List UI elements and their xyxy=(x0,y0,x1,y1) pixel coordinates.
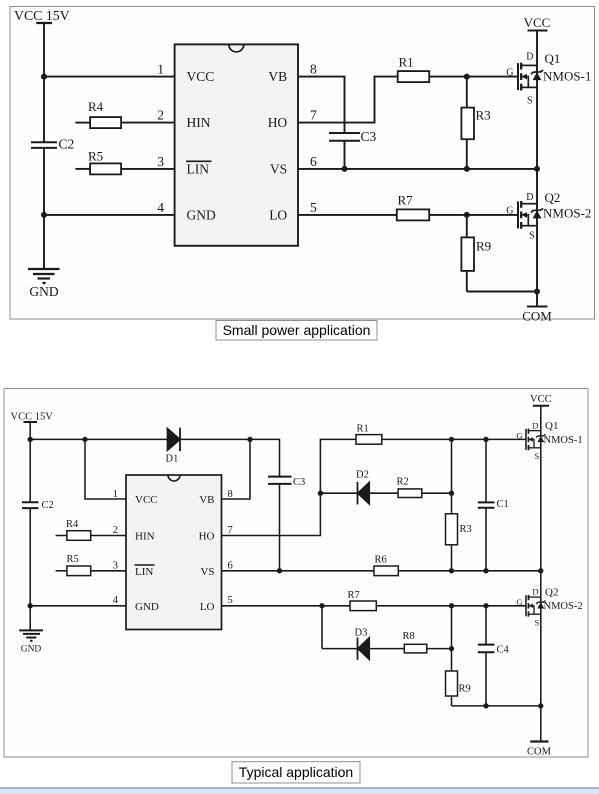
junction R1-R3 node xyxy=(464,74,470,80)
resistor R3 (sch2) xyxy=(446,439,458,570)
junction R9 return at source rail xyxy=(534,289,540,295)
node VCC top bar for Q1 drain xyxy=(528,30,548,32)
svg-text:VCC: VCC xyxy=(135,494,158,506)
svg-text:D2: D2 xyxy=(356,470,369,481)
caption box: Typical application xyxy=(232,762,360,783)
wire pin8 VB to C3 xyxy=(298,77,345,133)
wire left supply rail vertical xyxy=(43,23,45,142)
junction LO row / D3 branch (sch2) xyxy=(319,603,324,608)
wire R1 to Q1 gate (sch2) xyxy=(452,438,527,440)
resistor R1 (sch2) xyxy=(356,435,452,445)
svg-text:1: 1 xyxy=(113,489,118,500)
schematic 1 border frame xyxy=(10,7,595,320)
svg-text:GND: GND xyxy=(29,284,58,299)
svg-text:COM: COM xyxy=(527,747,552,758)
svg-text:G: G xyxy=(516,597,522,607)
svg-text:5: 5 xyxy=(228,595,233,606)
junction LO row / C4 column (sch2) xyxy=(483,603,488,608)
junction C4 bottom on return row (sch2) xyxy=(483,703,488,708)
wire pin7 HO up to R1 xyxy=(298,77,398,123)
resistor R9 (sch2) xyxy=(446,606,458,706)
svg-text:NMOS-2: NMOS-2 xyxy=(544,601,583,612)
node VCC 15V rail bar (sch2) xyxy=(24,421,38,423)
svg-text:LO: LO xyxy=(200,601,215,613)
resistor R7 (sch2) xyxy=(350,601,526,611)
svg-text:R3: R3 xyxy=(476,108,491,123)
diode D3 xyxy=(322,637,369,659)
capacitor C3 (sch2) xyxy=(268,477,292,484)
transistor Q1 xyxy=(518,63,543,91)
svg-text:Q1: Q1 xyxy=(545,420,558,432)
svg-text:NMOS-1: NMOS-1 xyxy=(543,69,591,84)
resistor R1 xyxy=(398,71,467,82)
wire pin7 HO up to R1 row (sch2) xyxy=(222,439,357,535)
svg-text:R7: R7 xyxy=(398,193,414,208)
svg-text:Small power application: Small power application xyxy=(223,322,371,338)
svg-text:S: S xyxy=(535,617,540,627)
svg-text:R6: R6 xyxy=(375,555,387,566)
junction R1 row / R3 column (sch2) xyxy=(449,437,454,442)
junction top line / pin1 branch (sch2) xyxy=(82,437,87,442)
svg-text:VCC 15V: VCC 15V xyxy=(11,412,54,423)
resistor R5 (sch2) xyxy=(56,566,126,576)
svg-text:2: 2 xyxy=(157,108,164,123)
svg-text:C2: C2 xyxy=(59,137,75,152)
svg-text:5: 5 xyxy=(310,200,317,215)
svg-text:7: 7 xyxy=(310,108,317,123)
capacitor C3 xyxy=(329,133,360,141)
svg-text:R9: R9 xyxy=(476,239,491,254)
junction VS net at source rail (sch2) xyxy=(538,568,543,573)
node COM bar xyxy=(527,306,548,308)
diode D2 xyxy=(320,482,369,504)
transistor Q1 (sch2) xyxy=(526,429,545,451)
junction C1 bottom on VS net (sch2) xyxy=(483,568,488,573)
IC U1 body xyxy=(175,44,298,245)
svg-text:R4: R4 xyxy=(88,99,104,114)
svg-text:Typical application: Typical application xyxy=(239,764,353,780)
svg-text:C3: C3 xyxy=(293,477,305,488)
capacitor C4 xyxy=(478,606,495,706)
svg-text:R2: R2 xyxy=(397,477,409,488)
junction at VCC rail / pin1 xyxy=(41,74,47,80)
svg-text:R1: R1 xyxy=(399,55,414,70)
wire pin5 LO row (sch2) xyxy=(222,605,351,607)
wire branch pin8 VB up to top line xyxy=(222,439,251,499)
svg-text:HIN: HIN xyxy=(187,115,211,130)
svg-text:R4: R4 xyxy=(66,519,79,530)
junction R7-R9 node xyxy=(464,212,470,218)
resistor R9 xyxy=(461,215,474,292)
wire pin4 GND xyxy=(44,214,175,216)
svg-text:VB: VB xyxy=(268,69,287,84)
svg-text:4: 4 xyxy=(113,595,119,606)
junction at VCC rail / pin4 xyxy=(41,212,47,218)
svg-text:GND: GND xyxy=(135,601,159,613)
svg-text:HIN: HIN xyxy=(135,531,155,543)
resistor R2 xyxy=(369,489,451,498)
svg-text:3: 3 xyxy=(113,561,118,572)
svg-text:LIN: LIN xyxy=(187,161,210,176)
wire C3 bottom to VS row xyxy=(279,484,281,571)
svg-text:C2: C2 xyxy=(42,500,54,511)
svg-text:Q1: Q1 xyxy=(545,51,561,66)
wire main drain-source rail (sch2) xyxy=(540,406,542,742)
wire pin6 VS row (sch2) xyxy=(222,570,375,572)
wire R9 bottom row to source rail (sch2) xyxy=(452,705,541,707)
wire pin6 VS net xyxy=(298,168,537,170)
capacitor C1 xyxy=(478,439,495,570)
svg-text:S: S xyxy=(535,451,540,461)
svg-text:G: G xyxy=(516,431,522,441)
svg-text:G: G xyxy=(506,68,513,79)
svg-text:D: D xyxy=(532,420,538,430)
wire left supply rail vertical (sch2) xyxy=(29,422,31,502)
node VCC top bar (sch2) xyxy=(533,405,549,407)
svg-text:D: D xyxy=(532,587,538,597)
capacitor C2 (sch2) xyxy=(22,502,39,508)
IC U2 body (sch2) xyxy=(126,475,222,630)
wire pin5 LO xyxy=(298,214,397,216)
svg-text:HO: HO xyxy=(199,531,215,543)
junction C3 bottom on VS net (sch2) xyxy=(277,568,282,573)
svg-text:GND: GND xyxy=(187,207,216,222)
svg-text:VS: VS xyxy=(270,161,287,176)
wire R9 bottom to source rail xyxy=(467,291,537,293)
junction return row at source rail (sch2) xyxy=(538,703,543,708)
svg-text:D3: D3 xyxy=(355,628,368,639)
resistor R6 xyxy=(374,566,541,576)
resistor R4 xyxy=(75,117,174,128)
svg-text:NMOS-1: NMOS-1 xyxy=(544,435,583,446)
resistor R3 xyxy=(461,77,474,169)
transistor Q2 xyxy=(518,201,543,229)
junction top line / pin8 branch (sch2) xyxy=(247,437,252,442)
caption box: Small power application xyxy=(216,321,377,341)
junction R3 bottom on VS net xyxy=(464,166,470,172)
wire pin1 VCC xyxy=(44,76,175,78)
svg-text:8: 8 xyxy=(310,62,317,77)
svg-text:R7: R7 xyxy=(348,590,360,601)
svg-text:D1: D1 xyxy=(166,454,179,465)
svg-text:1: 1 xyxy=(157,62,164,77)
wire main drain-source rail xyxy=(536,31,538,307)
svg-text:R5: R5 xyxy=(67,554,79,565)
resistor R8 xyxy=(369,644,451,653)
svg-text:C4: C4 xyxy=(497,645,510,656)
svg-text:R8: R8 xyxy=(403,631,415,642)
junction VCC rail / pin4 (sch2) xyxy=(28,603,33,608)
capacitor C2 xyxy=(31,142,57,148)
junction R3 bottom on VS net (sch2) xyxy=(449,568,454,573)
transistor Q2 (sch2) xyxy=(526,595,545,617)
svg-text:LO: LO xyxy=(269,207,287,222)
svg-text:R5: R5 xyxy=(88,149,103,164)
svg-text:R1: R1 xyxy=(357,424,369,435)
svg-text:VS: VS xyxy=(200,566,214,578)
wire rail below C2 to ground xyxy=(43,148,45,269)
svg-text:3: 3 xyxy=(157,154,164,169)
wire branch down to D3 xyxy=(321,606,323,649)
svg-text:R3: R3 xyxy=(460,524,472,535)
svg-text:Q2: Q2 xyxy=(545,587,558,599)
ground symbol GND (sch2) xyxy=(19,630,43,640)
resistor R4 (sch2) xyxy=(56,531,126,541)
IC notch (sch2) xyxy=(168,475,180,481)
svg-text:D: D xyxy=(526,192,533,203)
svg-text:VB: VB xyxy=(199,494,214,506)
junction R1 row / C1 column (sch2) xyxy=(483,437,488,442)
IC notch xyxy=(229,44,244,52)
resistor R5 xyxy=(75,163,174,174)
svg-text:GND: GND xyxy=(21,645,42,655)
junction R8 / R9 column (sch2) xyxy=(449,646,454,651)
junction R2 / R3 column (sch2) xyxy=(449,491,454,496)
svg-text:6: 6 xyxy=(228,561,233,572)
ground symbol GND xyxy=(28,269,60,283)
wire C3 bottom to VS net xyxy=(344,141,346,169)
wire VCC top line to D1 xyxy=(30,438,167,440)
svg-text:VCC 15V: VCC 15V xyxy=(14,8,70,23)
node VCC 15V rail bar xyxy=(36,22,52,24)
svg-text:Q2: Q2 xyxy=(545,190,561,205)
svg-text:VCC: VCC xyxy=(530,394,552,405)
svg-text:G: G xyxy=(506,206,513,217)
svg-text:NMOS-2: NMOS-2 xyxy=(543,206,591,221)
svg-text:C3: C3 xyxy=(361,129,377,144)
svg-text:7: 7 xyxy=(228,525,233,536)
schematic 2 border frame xyxy=(4,389,588,758)
svg-text:COM: COM xyxy=(522,309,552,324)
junction HO branch / D2 row (sch2) xyxy=(318,491,323,496)
svg-text:C1: C1 xyxy=(497,499,509,510)
svg-text:4: 4 xyxy=(157,200,164,215)
svg-text:2: 2 xyxy=(113,525,118,536)
junction VS net at source rail xyxy=(534,166,540,172)
junction LO row / R9 column (sch2) xyxy=(449,603,454,608)
svg-text:VCC: VCC xyxy=(187,69,215,84)
svg-text:HO: HO xyxy=(268,115,288,130)
svg-text:VCC: VCC xyxy=(524,15,551,30)
wire D1 cathode to C3 corner xyxy=(180,439,280,476)
wire branch down to pin1 xyxy=(85,439,126,499)
svg-text:S: S xyxy=(529,231,535,242)
wire rail below C2 to ground (sch2) xyxy=(29,508,31,630)
svg-text:R9: R9 xyxy=(459,684,471,695)
svg-text:S: S xyxy=(527,96,533,107)
junction C3 bottom on VS net xyxy=(342,166,348,172)
svg-text:8: 8 xyxy=(228,489,233,500)
bottom page bar xyxy=(0,787,599,794)
diode D1 xyxy=(167,428,180,452)
wire pin4 GND (sch2) xyxy=(30,605,126,607)
junction VCC rail / top line (sch2) xyxy=(28,437,33,442)
wire R1 to Q1 gate xyxy=(467,76,518,78)
svg-text:LIN: LIN xyxy=(135,566,153,578)
node COM bar (sch2) xyxy=(530,740,548,742)
svg-text:D: D xyxy=(526,52,533,63)
svg-text:6: 6 xyxy=(310,154,317,169)
resistor R7 xyxy=(397,209,518,220)
